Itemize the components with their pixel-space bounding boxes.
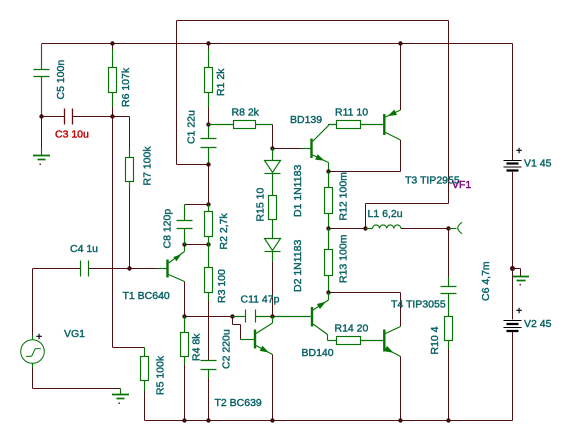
transistor T3 TIP2955	[384, 110, 400, 140]
resistor R13	[325, 229, 333, 293]
wire bus to V1 top	[512, 44, 514, 161]
resistor R3	[205, 245, 213, 293]
svg-text:VG1: VG1	[64, 328, 85, 340]
resistor R4	[181, 317, 189, 366]
wire R7 to T1 base node	[129, 181, 131, 189]
wire bias node down to R5	[113, 117, 145, 348]
node R12/R13 output junction	[326, 226, 330, 230]
node C11 right junction	[270, 314, 274, 318]
capacitor C2	[201, 361, 217, 379]
wire center node to V2 top	[512, 269, 514, 320]
wire T2 base step	[233, 317, 241, 340]
diode D1 1N1183	[265, 149, 281, 196]
wire D1 node to BD139 base	[273, 148, 303, 150]
node R1 top junction	[206, 41, 210, 45]
node R4 bottom	[182, 418, 186, 422]
capacitor C5	[34, 44, 50, 117]
svg-text:C4 1u: C4 1u	[70, 243, 98, 255]
svg-text:R1 2k: R1 2k	[215, 68, 227, 96]
svg-text:T2 BC639: T2 BC639	[215, 397, 262, 409]
ground below C3 node	[41, 117, 43, 149]
T4 emitter arrow	[384, 346, 393, 353]
svg-text:R10 4: R10 4	[429, 326, 441, 354]
svg-text:C1 22u: C1 22u	[186, 110, 198, 144]
wire R8 to D1 node	[272, 125, 274, 149]
svg-text:V2 45: V2 45	[524, 318, 552, 330]
svg-text:C8 120p: C8 120p	[162, 209, 174, 249]
capacitor C1	[201, 125, 217, 165]
capacitor C8	[185, 204, 209, 206]
wire T2 emitter down	[272, 355, 274, 421]
svg-text:C6 4,7m: C6 4,7m	[480, 261, 492, 301]
battery V2	[504, 321, 522, 332]
wire to L1	[329, 228, 366, 230]
transistor BD140	[273, 293, 329, 341]
resistor R15	[269, 196, 277, 239]
node supply center junction	[510, 266, 515, 271]
svg-text:R6 107k: R6 107k	[120, 67, 132, 107]
svg-text:BD140: BD140	[302, 347, 334, 359]
wire C3 right	[73, 116, 113, 118]
capacitor C11	[233, 310, 273, 323]
wire bias node to R7	[113, 117, 130, 150]
wire V1 bottom to center node	[512, 172, 514, 269]
node C2 bottom	[206, 418, 210, 422]
svg-text:V1 45: V1 45	[524, 158, 552, 170]
svg-text:T4 TIP3055: T4 TIP3055	[391, 299, 446, 311]
resistor R1	[205, 49, 213, 107]
capacitor C3 (highlighted red)	[65, 109, 73, 125]
wire T4 emitter down	[400, 357, 402, 421]
transistor T1 BC640	[130, 268, 159, 270]
node R10 bottom	[446, 418, 450, 422]
battery V1	[504, 161, 522, 171]
node input bias junction	[39, 114, 43, 118]
svg-text:R14 20: R14 20	[335, 323, 369, 335]
node T1 base junction	[127, 266, 131, 270]
svg-text:C2 220u: C2 220u	[221, 329, 233, 369]
svg-text:C11 47p: C11 47p	[241, 294, 280, 306]
svg-text:R13 100m: R13 100m	[338, 234, 350, 283]
wire L1 to output node	[401, 228, 449, 230]
T1 collector arrow	[173, 254, 181, 261]
voltage probe VF1	[449, 222, 463, 233]
resistor R14	[328, 337, 384, 345]
T3 emitter arrow	[388, 110, 398, 117]
svg-text:+: +	[516, 305, 522, 317]
wire +45V top bus	[42, 43, 513, 45]
node output junction	[446, 226, 450, 230]
node D1 top junction	[270, 146, 274, 150]
wire R10 to bottom bus	[448, 341, 450, 350]
node C8/R2 junction row	[182, 242, 186, 246]
node R13 bottom junction	[326, 290, 330, 294]
T2 emitter arrow	[260, 346, 269, 353]
svg-text:+: +	[516, 145, 522, 157]
node C11 left junction	[230, 314, 234, 318]
resistor R5	[141, 348, 149, 392]
generator VG1	[32, 269, 34, 336]
svg-text:R11 10: R11 10	[335, 107, 368, 119]
diode D2 1N1183	[265, 239, 281, 252]
svg-text:R2 2,7k: R2 2,7k	[218, 213, 230, 250]
node T2 emitter bottom	[270, 418, 274, 422]
resistor R12	[325, 172, 333, 229]
resistor R2	[208, 165, 210, 205]
BD139 emitter arrow	[315, 154, 324, 161]
capacitor C4	[33, 268, 81, 270]
node C1 top junction	[206, 122, 210, 126]
wire R3 to C2	[208, 293, 210, 302]
wire T1 emitter down	[184, 282, 186, 317]
resistor R10	[445, 317, 453, 341]
svg-text:L1 6,2u: L1 6,2u	[368, 208, 403, 220]
node R6 top junction	[110, 41, 114, 45]
svg-text:T1 BC640: T1 BC640	[123, 290, 170, 302]
svg-text:R4 8k: R4 8k	[191, 333, 203, 361]
svg-text:C3 10u: C3 10u	[55, 129, 89, 141]
resistor R6	[109, 49, 117, 107]
ground at supply center	[513, 269, 521, 277]
capacitor C6	[448, 229, 450, 278]
resistor R11	[329, 121, 384, 129]
svg-text:R15 10: R15 10	[255, 187, 267, 221]
wire T1 emitter row	[185, 316, 233, 318]
wire R13 node to T4 collector	[329, 293, 401, 327]
node R12 top junction	[326, 169, 330, 173]
svg-text:+: +	[36, 331, 42, 343]
BD140 emitter arrow	[317, 302, 326, 309]
resistor R7	[126, 158, 134, 182]
transistor BD139	[302, 126, 329, 172]
svg-text:R7 100k: R7 100k	[142, 146, 154, 186]
wire C3 left	[42, 116, 65, 118]
svg-text:R3 100: R3 100	[216, 269, 228, 303]
wire bottom -45V bus	[145, 332, 513, 421]
ground at VG1	[112, 389, 129, 399]
svg-text:C5 100n: C5 100n	[55, 60, 67, 100]
svg-text:BD139: BD139	[290, 114, 322, 126]
inductor L1	[366, 225, 401, 229]
wire T3 emitter to +bus	[400, 44, 402, 111]
svg-text:R8 2k: R8 2k	[232, 107, 260, 119]
node C3/R6/R7/R5 junction	[110, 114, 114, 118]
node C8 top junction	[206, 202, 210, 206]
resistor R8	[209, 121, 273, 129]
node C1 bottom junction	[206, 162, 210, 166]
svg-text:D2 1N1183: D2 1N1183	[292, 239, 304, 292]
wire T3 collector to R12 node	[329, 140, 401, 172]
wire D2 to C11 node	[272, 252, 274, 263]
svg-text:D1 1N1183: D1 1N1183	[292, 164, 304, 217]
transistor T2 BC639	[241, 317, 273, 355]
svg-text:R12 100m: R12 100m	[338, 172, 350, 221]
node T4 emitter bottom	[398, 418, 402, 422]
transistor T4 TIP3055	[384, 327, 400, 357]
wire top bootstrap loop	[177, 21, 449, 229]
svg-text:VF1: VF1	[452, 179, 471, 191]
svg-text:R5 100k: R5 100k	[155, 355, 167, 395]
